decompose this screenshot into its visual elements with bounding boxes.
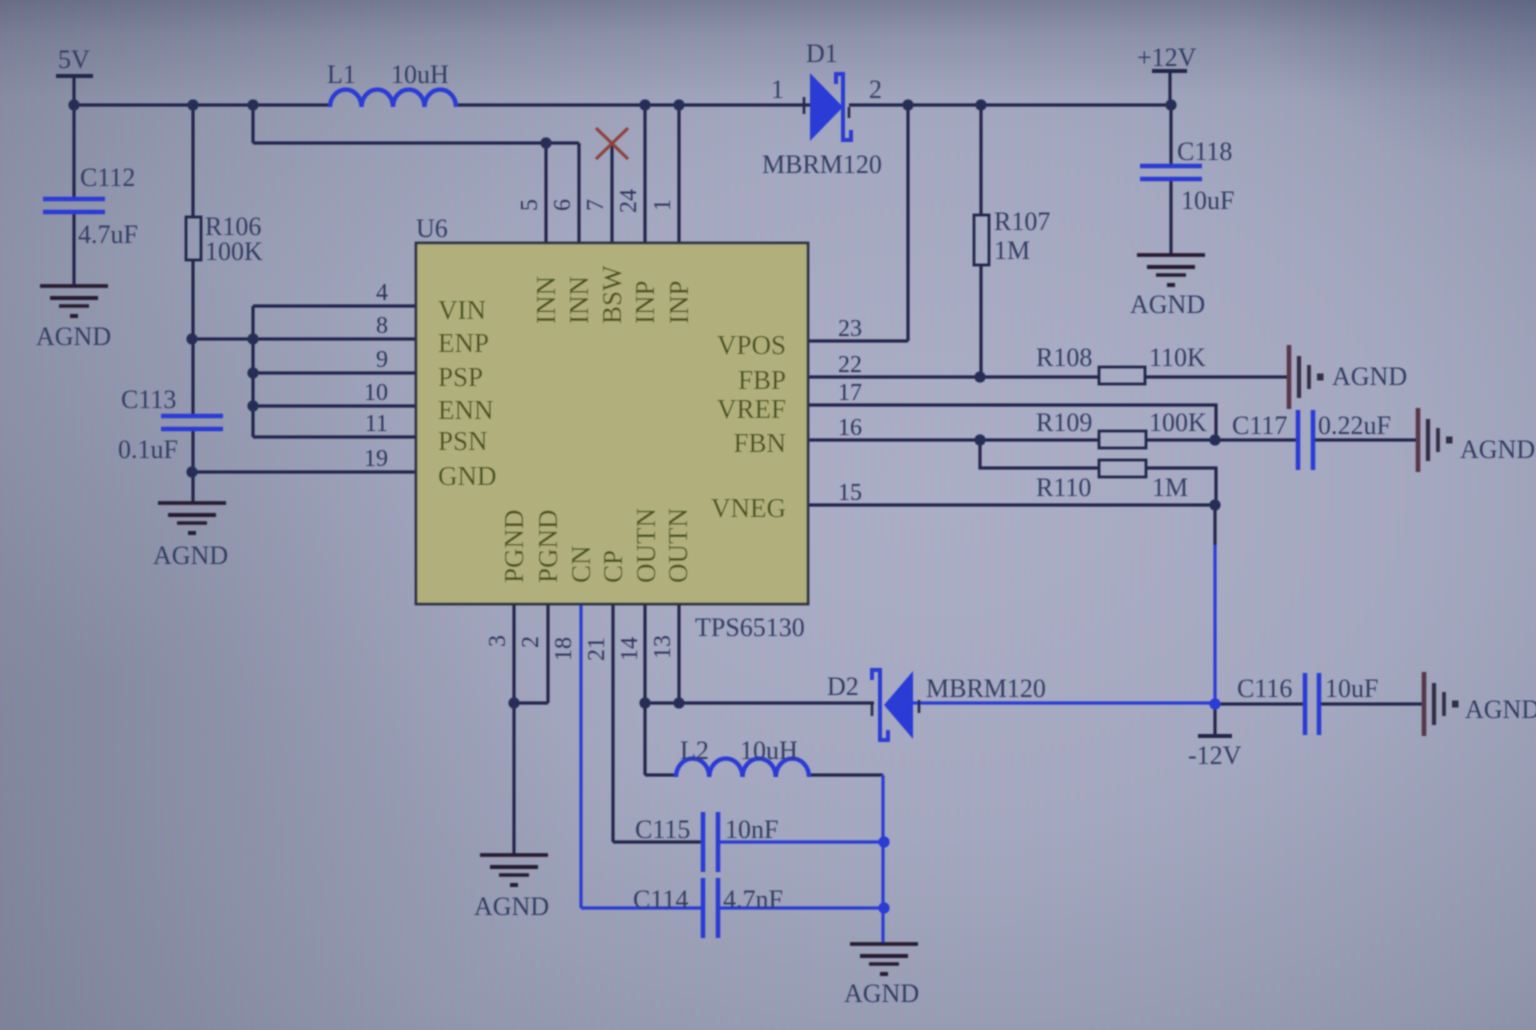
svg-text:18: 18	[551, 637, 577, 661]
svg-text:FBP: FBP	[738, 365, 786, 395]
svg-text:10: 10	[364, 380, 388, 406]
svg-text:10uF: 10uF	[1181, 186, 1234, 215]
svg-text:1: 1	[771, 75, 784, 104]
svg-text:AGND: AGND	[1465, 695, 1536, 724]
svg-text:OUTN: OUTN	[631, 508, 661, 583]
svg-text:21: 21	[584, 637, 610, 661]
svg-text:FBN: FBN	[733, 428, 786, 458]
svg-text:AGND: AGND	[36, 322, 111, 351]
svg-text:2: 2	[518, 636, 544, 648]
svg-text:C117: C117	[1232, 411, 1287, 440]
svg-text:2: 2	[869, 75, 882, 104]
svg-text:5: 5	[517, 199, 543, 211]
svg-text:PSN: PSN	[438, 426, 488, 456]
svg-text:AGND: AGND	[844, 979, 919, 1008]
svg-text:AGND: AGND	[1130, 290, 1205, 319]
svg-text:PGND: PGND	[499, 509, 529, 583]
svg-text:8: 8	[376, 313, 388, 339]
svg-text:INP: INP	[630, 280, 660, 324]
svg-text:C115: C115	[635, 815, 690, 844]
svg-text:1: 1	[650, 199, 676, 211]
svg-text:0.1uF: 0.1uF	[118, 435, 178, 464]
svg-text:ENP: ENP	[438, 328, 489, 358]
svg-text:MBRM120: MBRM120	[926, 674, 1046, 703]
svg-text:AGND: AGND	[1460, 435, 1535, 464]
svg-text:R110: R110	[1036, 473, 1091, 502]
svg-text:BSW: BSW	[597, 265, 627, 324]
svg-text:R109: R109	[1036, 408, 1092, 437]
svg-text:PGND: PGND	[533, 509, 563, 583]
svg-text:MBRM120: MBRM120	[762, 150, 882, 179]
svg-text:10uH: 10uH	[391, 60, 449, 89]
svg-text:100K: 100K	[1149, 408, 1207, 437]
svg-text:14: 14	[617, 637, 643, 661]
svg-text:D1: D1	[806, 39, 838, 68]
svg-text:VREF: VREF	[717, 394, 786, 424]
svg-text:10uF: 10uF	[1325, 674, 1378, 703]
svg-text:INN: INN	[531, 276, 561, 324]
svg-text:D2: D2	[827, 672, 859, 701]
svg-text:5V: 5V	[58, 45, 90, 74]
svg-text:23: 23	[838, 316, 862, 342]
svg-text:13: 13	[650, 635, 676, 659]
svg-text:AGND: AGND	[153, 541, 228, 570]
svg-text:R108: R108	[1036, 343, 1092, 372]
svg-text:7: 7	[583, 199, 609, 211]
svg-text:15: 15	[838, 480, 862, 506]
svg-text:PSP: PSP	[438, 362, 483, 392]
svg-text:INN: INN	[564, 276, 594, 324]
svg-text:VPOS: VPOS	[717, 330, 786, 360]
svg-text:ENN: ENN	[438, 395, 494, 425]
svg-text:L2: L2	[680, 736, 709, 765]
svg-text:17: 17	[838, 380, 862, 406]
svg-text:22: 22	[838, 352, 862, 378]
svg-text:24: 24	[616, 189, 642, 213]
svg-text:VNEG: VNEG	[711, 493, 786, 523]
svg-text:3: 3	[485, 635, 511, 647]
svg-text:U6: U6	[416, 214, 448, 243]
svg-text:TPS65130: TPS65130	[695, 613, 805, 642]
svg-text:+12V: +12V	[1137, 43, 1197, 72]
svg-text:L1: L1	[327, 60, 356, 89]
svg-text:9: 9	[376, 347, 388, 373]
svg-text:OUTN: OUTN	[663, 508, 693, 583]
svg-text:AGND: AGND	[474, 892, 549, 921]
svg-text:C114: C114	[633, 885, 688, 914]
svg-text:C113: C113	[121, 385, 176, 414]
svg-text:4: 4	[376, 280, 388, 306]
svg-text:100K: 100K	[205, 237, 263, 266]
svg-text:CN: CN	[566, 545, 596, 583]
svg-text:6: 6	[550, 199, 576, 211]
svg-text:GND: GND	[438, 461, 497, 491]
svg-text:C118: C118	[1177, 137, 1232, 166]
svg-text:C112: C112	[80, 163, 135, 192]
svg-text:1M: 1M	[1152, 473, 1188, 502]
svg-text:-12V: -12V	[1188, 741, 1242, 770]
svg-text:10nF: 10nF	[725, 815, 778, 844]
svg-text:CP: CP	[598, 550, 628, 583]
svg-text:VIN: VIN	[438, 295, 486, 325]
svg-text:AGND: AGND	[1332, 362, 1407, 391]
svg-text:1M: 1M	[994, 236, 1030, 265]
svg-text:10uH: 10uH	[740, 736, 798, 765]
svg-text:11: 11	[365, 411, 388, 437]
svg-text:0.22uF: 0.22uF	[1318, 411, 1391, 440]
svg-text:16: 16	[838, 415, 862, 441]
svg-text:R107: R107	[994, 207, 1050, 236]
svg-text:4.7nF: 4.7nF	[723, 885, 783, 914]
svg-text:C116: C116	[1237, 674, 1292, 703]
svg-text:INP: INP	[664, 280, 694, 324]
svg-text:110K: 110K	[1149, 343, 1206, 372]
svg-text:19: 19	[364, 446, 388, 472]
svg-text:4.7uF: 4.7uF	[78, 220, 138, 249]
